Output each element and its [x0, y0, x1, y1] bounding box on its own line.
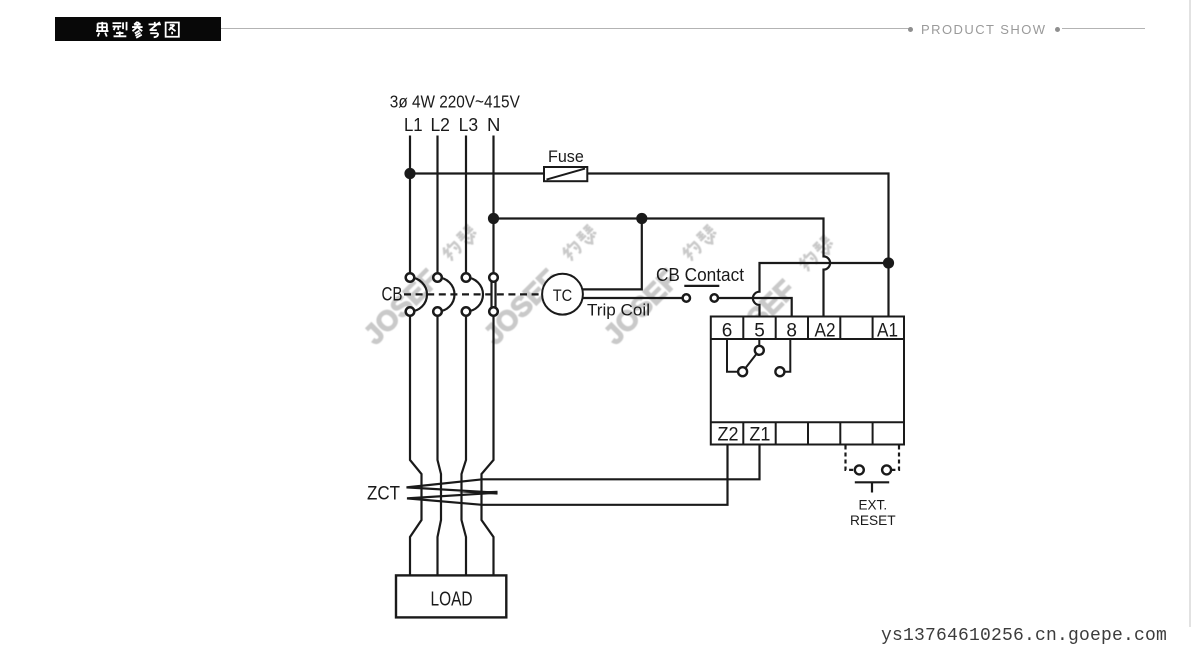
svg-text:TC: TC	[553, 286, 573, 305]
svg-text:N: N	[487, 115, 500, 135]
svg-text:L3: L3	[459, 115, 479, 135]
svg-text:L2: L2	[430, 115, 450, 135]
svg-text:Trip Coil: Trip Coil	[587, 301, 650, 320]
svg-text:CB: CB	[382, 285, 403, 306]
svg-text:Z1: Z1	[749, 425, 770, 446]
svg-text:EXT.: EXT.	[859, 496, 888, 512]
svg-text:Fuse: Fuse	[548, 147, 584, 166]
svg-text:5: 5	[754, 321, 765, 342]
svg-text:L1: L1	[404, 115, 423, 135]
svg-text:6: 6	[722, 321, 733, 342]
svg-text:A1: A1	[877, 321, 898, 342]
svg-text:Z2: Z2	[718, 425, 739, 446]
svg-text:A2: A2	[815, 321, 836, 342]
svg-text:ZCT: ZCT	[367, 482, 400, 504]
svg-text:LOAD: LOAD	[431, 588, 473, 610]
svg-text:8: 8	[786, 321, 797, 342]
svg-text:3ø 4W 220V~415V: 3ø 4W 220V~415V	[390, 91, 520, 111]
svg-text:RESET: RESET	[850, 512, 896, 528]
svg-text:CB Contact: CB Contact	[656, 264, 744, 285]
